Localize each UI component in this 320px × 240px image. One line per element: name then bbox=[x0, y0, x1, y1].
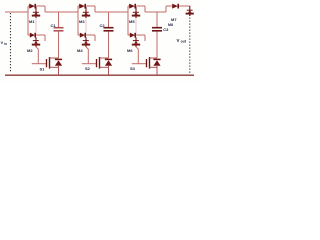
transistor M3 label bbox=[79, 19, 85, 24]
wire corner down to rail bbox=[94, 6, 96, 12]
svg-text:V: V bbox=[177, 38, 180, 43]
capacitor C1 bbox=[54, 28, 64, 31]
node Vin port dotted line bbox=[10, 13, 12, 73]
node Vout port dotted line bbox=[189, 15, 191, 74]
wire D5 cathode to corner bbox=[36, 34, 45, 36]
svg-text:C3: C3 bbox=[163, 27, 169, 32]
diode D5 (middle) bbox=[28, 33, 35, 38]
svg-text:C2: C2 bbox=[100, 23, 106, 28]
capacitor C3 bbox=[152, 28, 162, 31]
wire mid corner stub down bbox=[144, 35, 146, 41]
svg-text:M3: M3 bbox=[79, 19, 85, 24]
svg-text:M1: M1 bbox=[29, 19, 35, 24]
diode S2 body diode bbox=[105, 59, 112, 65]
diode D2 (top) bbox=[78, 4, 85, 9]
wire stage 2 left vertical bbox=[77, 6, 79, 35]
capacitor C1 top lead bbox=[58, 12, 60, 27]
wire M5 source down to mid diode bbox=[135, 18, 137, 34]
wire D7 cathode to corner bbox=[136, 34, 145, 36]
diode S3 body diode bbox=[153, 59, 160, 65]
svg-text:S1: S1 bbox=[40, 67, 46, 72]
transistor M7 (output switch) bbox=[186, 6, 194, 16]
wire D3 cathode to corner bbox=[136, 5, 145, 7]
svg-text:M2: M2 bbox=[27, 48, 33, 53]
wire M6 source down bbox=[136, 47, 138, 64]
transistor M2 (middle switch) bbox=[32, 37, 40, 47]
transistor S1 (bottom switch) bbox=[47, 57, 59, 69]
node Vin label bbox=[1, 40, 8, 46]
wire top rail segment stage 1 bbox=[45, 11, 78, 13]
wire top rail input segment bbox=[5, 11, 28, 13]
wire D2 cathode to corner bbox=[86, 5, 95, 7]
svg-text:V: V bbox=[1, 40, 4, 45]
svg-text:S2: S2 bbox=[85, 66, 91, 71]
transistor M8 label (near C3) bbox=[168, 23, 173, 27]
wire to S2 gate bbox=[82, 63, 96, 65]
wire riser to output diode bbox=[165, 6, 167, 12]
transistor M3 (upper switch) bbox=[82, 7, 90, 18]
wire corner down to rail bbox=[144, 6, 146, 12]
wire top rail segment stage 2 bbox=[95, 11, 128, 13]
transistor M2 label bbox=[27, 48, 33, 53]
wire M1 source down to mid diode bbox=[35, 18, 37, 34]
capacitor C2 bbox=[104, 28, 114, 31]
diode D3 (top) bbox=[128, 4, 135, 9]
capacitor C3 label bbox=[163, 27, 169, 32]
transistor M1 (upper switch) bbox=[32, 7, 40, 18]
svg-text:M6: M6 bbox=[127, 48, 133, 53]
capacitor C2 top lead bbox=[108, 12, 110, 27]
transistor S3 (bottom switch) bbox=[147, 57, 158, 69]
wire to S3 gate bbox=[132, 63, 146, 65]
capacitor C1 bottom lead bbox=[58, 32, 60, 59]
capacitor C2 bottom lead bbox=[108, 32, 110, 59]
diode S1 body diode bbox=[55, 59, 62, 65]
wire S1 source to bottom rail bbox=[58, 66, 60, 75]
wire bottom rail bbox=[5, 74, 194, 76]
wire S2 source to bottom rail bbox=[108, 66, 110, 75]
diode D6 (middle) bbox=[78, 33, 85, 38]
svg-text:S3: S3 bbox=[130, 66, 136, 71]
svg-text:C1: C1 bbox=[51, 23, 57, 28]
diode D7 (middle) bbox=[128, 33, 135, 38]
svg-text:M7: M7 bbox=[171, 17, 177, 22]
wire M2 source down bbox=[36, 47, 38, 64]
wire D6 cathode to corner bbox=[86, 34, 95, 36]
svg-text:M5: M5 bbox=[129, 19, 135, 24]
transistor S3 label bbox=[130, 66, 136, 71]
svg-text:M8: M8 bbox=[168, 23, 173, 27]
wire stage 1 left vertical bbox=[27, 6, 29, 35]
wire top rail segment stage 3 bbox=[145, 11, 166, 13]
transistor M7 label bbox=[171, 17, 177, 22]
transistor M5 (upper switch) bbox=[132, 7, 140, 18]
transistor M4 label bbox=[77, 48, 83, 53]
transistor M5 label bbox=[129, 19, 135, 24]
wire corner down to rail bbox=[44, 6, 46, 12]
transistor S2 (bottom switch) bbox=[97, 57, 109, 69]
wire D4 cathode to M7 bbox=[179, 5, 190, 7]
transistor M1 label bbox=[29, 19, 35, 24]
svg-text:in: in bbox=[4, 42, 7, 46]
transistor S1 label bbox=[40, 67, 46, 72]
transistor S2 label bbox=[85, 66, 91, 71]
capacitor C3 top lead bbox=[156, 12, 158, 27]
capacitor C1 label bbox=[51, 23, 57, 28]
transistor M6 label bbox=[127, 48, 133, 53]
wire stage 3 left vertical bbox=[127, 6, 129, 35]
wire mid corner stub down bbox=[44, 35, 46, 41]
wire S3 source to bottom rail bbox=[156, 66, 158, 75]
capacitor C3 bottom lead bbox=[156, 32, 158, 59]
transistor M4 (middle switch) bbox=[82, 37, 90, 47]
wire to S1 gate bbox=[32, 63, 46, 65]
transistor M6 (middle switch) bbox=[132, 37, 140, 47]
diode D4 (output) bbox=[166, 4, 178, 9]
wire D1 cathode to corner bbox=[36, 5, 45, 7]
capacitor C2 label bbox=[100, 23, 106, 28]
svg-text:out: out bbox=[181, 40, 187, 44]
svg-text:M4: M4 bbox=[77, 48, 83, 53]
node Vout label bbox=[177, 38, 187, 44]
wire M3 source down to mid diode bbox=[85, 18, 87, 34]
wire mid corner stub down bbox=[94, 35, 96, 41]
diode D1 (top) bbox=[28, 4, 35, 9]
wire M4 source down bbox=[86, 47, 88, 64]
